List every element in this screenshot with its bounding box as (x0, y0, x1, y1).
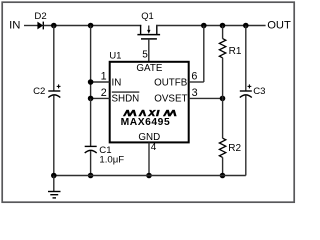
svg-text:1.0μF: 1.0μF (99, 154, 124, 165)
wire pin 6 (189, 26, 204, 83)
wire Q1 gate to pin 5 (148, 39, 150, 62)
svg-text:1: 1 (101, 70, 107, 82)
capacitor C2 (33, 84, 60, 97)
wire bottom ground rail (54, 175, 246, 177)
wire U1 input column (90, 26, 92, 99)
node junction dot C1 bottom (88, 173, 94, 179)
svg-text:U1: U1 (109, 51, 121, 62)
resistor R2 (219, 98, 241, 175)
wire C2 branch down (53, 26, 55, 91)
svg-text:IN: IN (9, 19, 20, 31)
transistor Q1 (137, 10, 160, 39)
capacitor C3 (240, 84, 266, 97)
svg-text:Q1: Q1 (141, 10, 154, 21)
node junction dot at U1 input branch (88, 23, 94, 29)
node junction dot pin 4 bottom (146, 173, 152, 179)
svg-text:C2: C2 (33, 86, 45, 97)
svg-text:OVSET: OVSET (154, 94, 187, 105)
node junction dot at C2 branch (51, 23, 57, 29)
svg-text:R2: R2 (228, 143, 241, 154)
pin SHDN label (112, 92, 140, 104)
svg-text:GND: GND (138, 132, 160, 143)
ground (48, 176, 61, 198)
svg-text:GATE: GATE (136, 63, 162, 74)
svg-text:R1: R1 (229, 46, 242, 57)
svg-text:D2: D2 (34, 11, 46, 22)
op-amp U1 MAX6495 box (110, 62, 189, 143)
svg-text:SHDN: SHDN (112, 94, 140, 105)
svg-text:MAX6495: MAX6495 (121, 117, 171, 128)
node junction dot ground (51, 173, 57, 179)
wire C3 to bottom rail (245, 96, 247, 176)
wire pin 2 down to C1 (90, 98, 92, 146)
node junction dot pin 2 (88, 96, 94, 102)
svg-text:C3: C3 (253, 86, 265, 97)
node junction dot R2 bottom (220, 173, 226, 179)
wire pin 1 (91, 81, 110, 83)
logo MAXIM (123, 110, 177, 116)
wire C2 to ground rail (53, 96, 55, 176)
wire D2 cathode to Q1 (43, 25, 141, 27)
wire C1 to ground rail (90, 151, 92, 175)
capacitor C1 (85, 145, 125, 165)
diode D2 (34, 11, 46, 30)
svg-text:IN: IN (112, 77, 122, 88)
svg-text:5: 5 (142, 50, 148, 61)
resistor R1 (219, 26, 241, 99)
wire IN to D2 anode (24, 25, 38, 27)
node junction dot pin 1 (88, 79, 94, 85)
svg-text:4: 4 (151, 142, 157, 153)
svg-text:OUTFB: OUTFB (154, 77, 188, 88)
wire pin 4 to ground rail (148, 142, 150, 175)
node junction dot OUTFB column (201, 23, 207, 29)
wire Q1 drain to OUT rail (156, 25, 266, 27)
wire pin 2 (91, 97, 110, 99)
border frame (2, 2, 294, 202)
svg-text:2: 2 (101, 87, 107, 99)
node junction dot R1 column (220, 23, 226, 29)
svg-text:6: 6 (191, 70, 197, 82)
node junction dot pin3/R1/R2 (220, 96, 226, 102)
svg-text:OUT: OUT (267, 19, 291, 31)
wire C3 branch down (245, 26, 247, 91)
svg-text:3: 3 (192, 87, 198, 99)
wire pin 3 (189, 97, 223, 99)
node junction dot C3 column (243, 23, 249, 29)
